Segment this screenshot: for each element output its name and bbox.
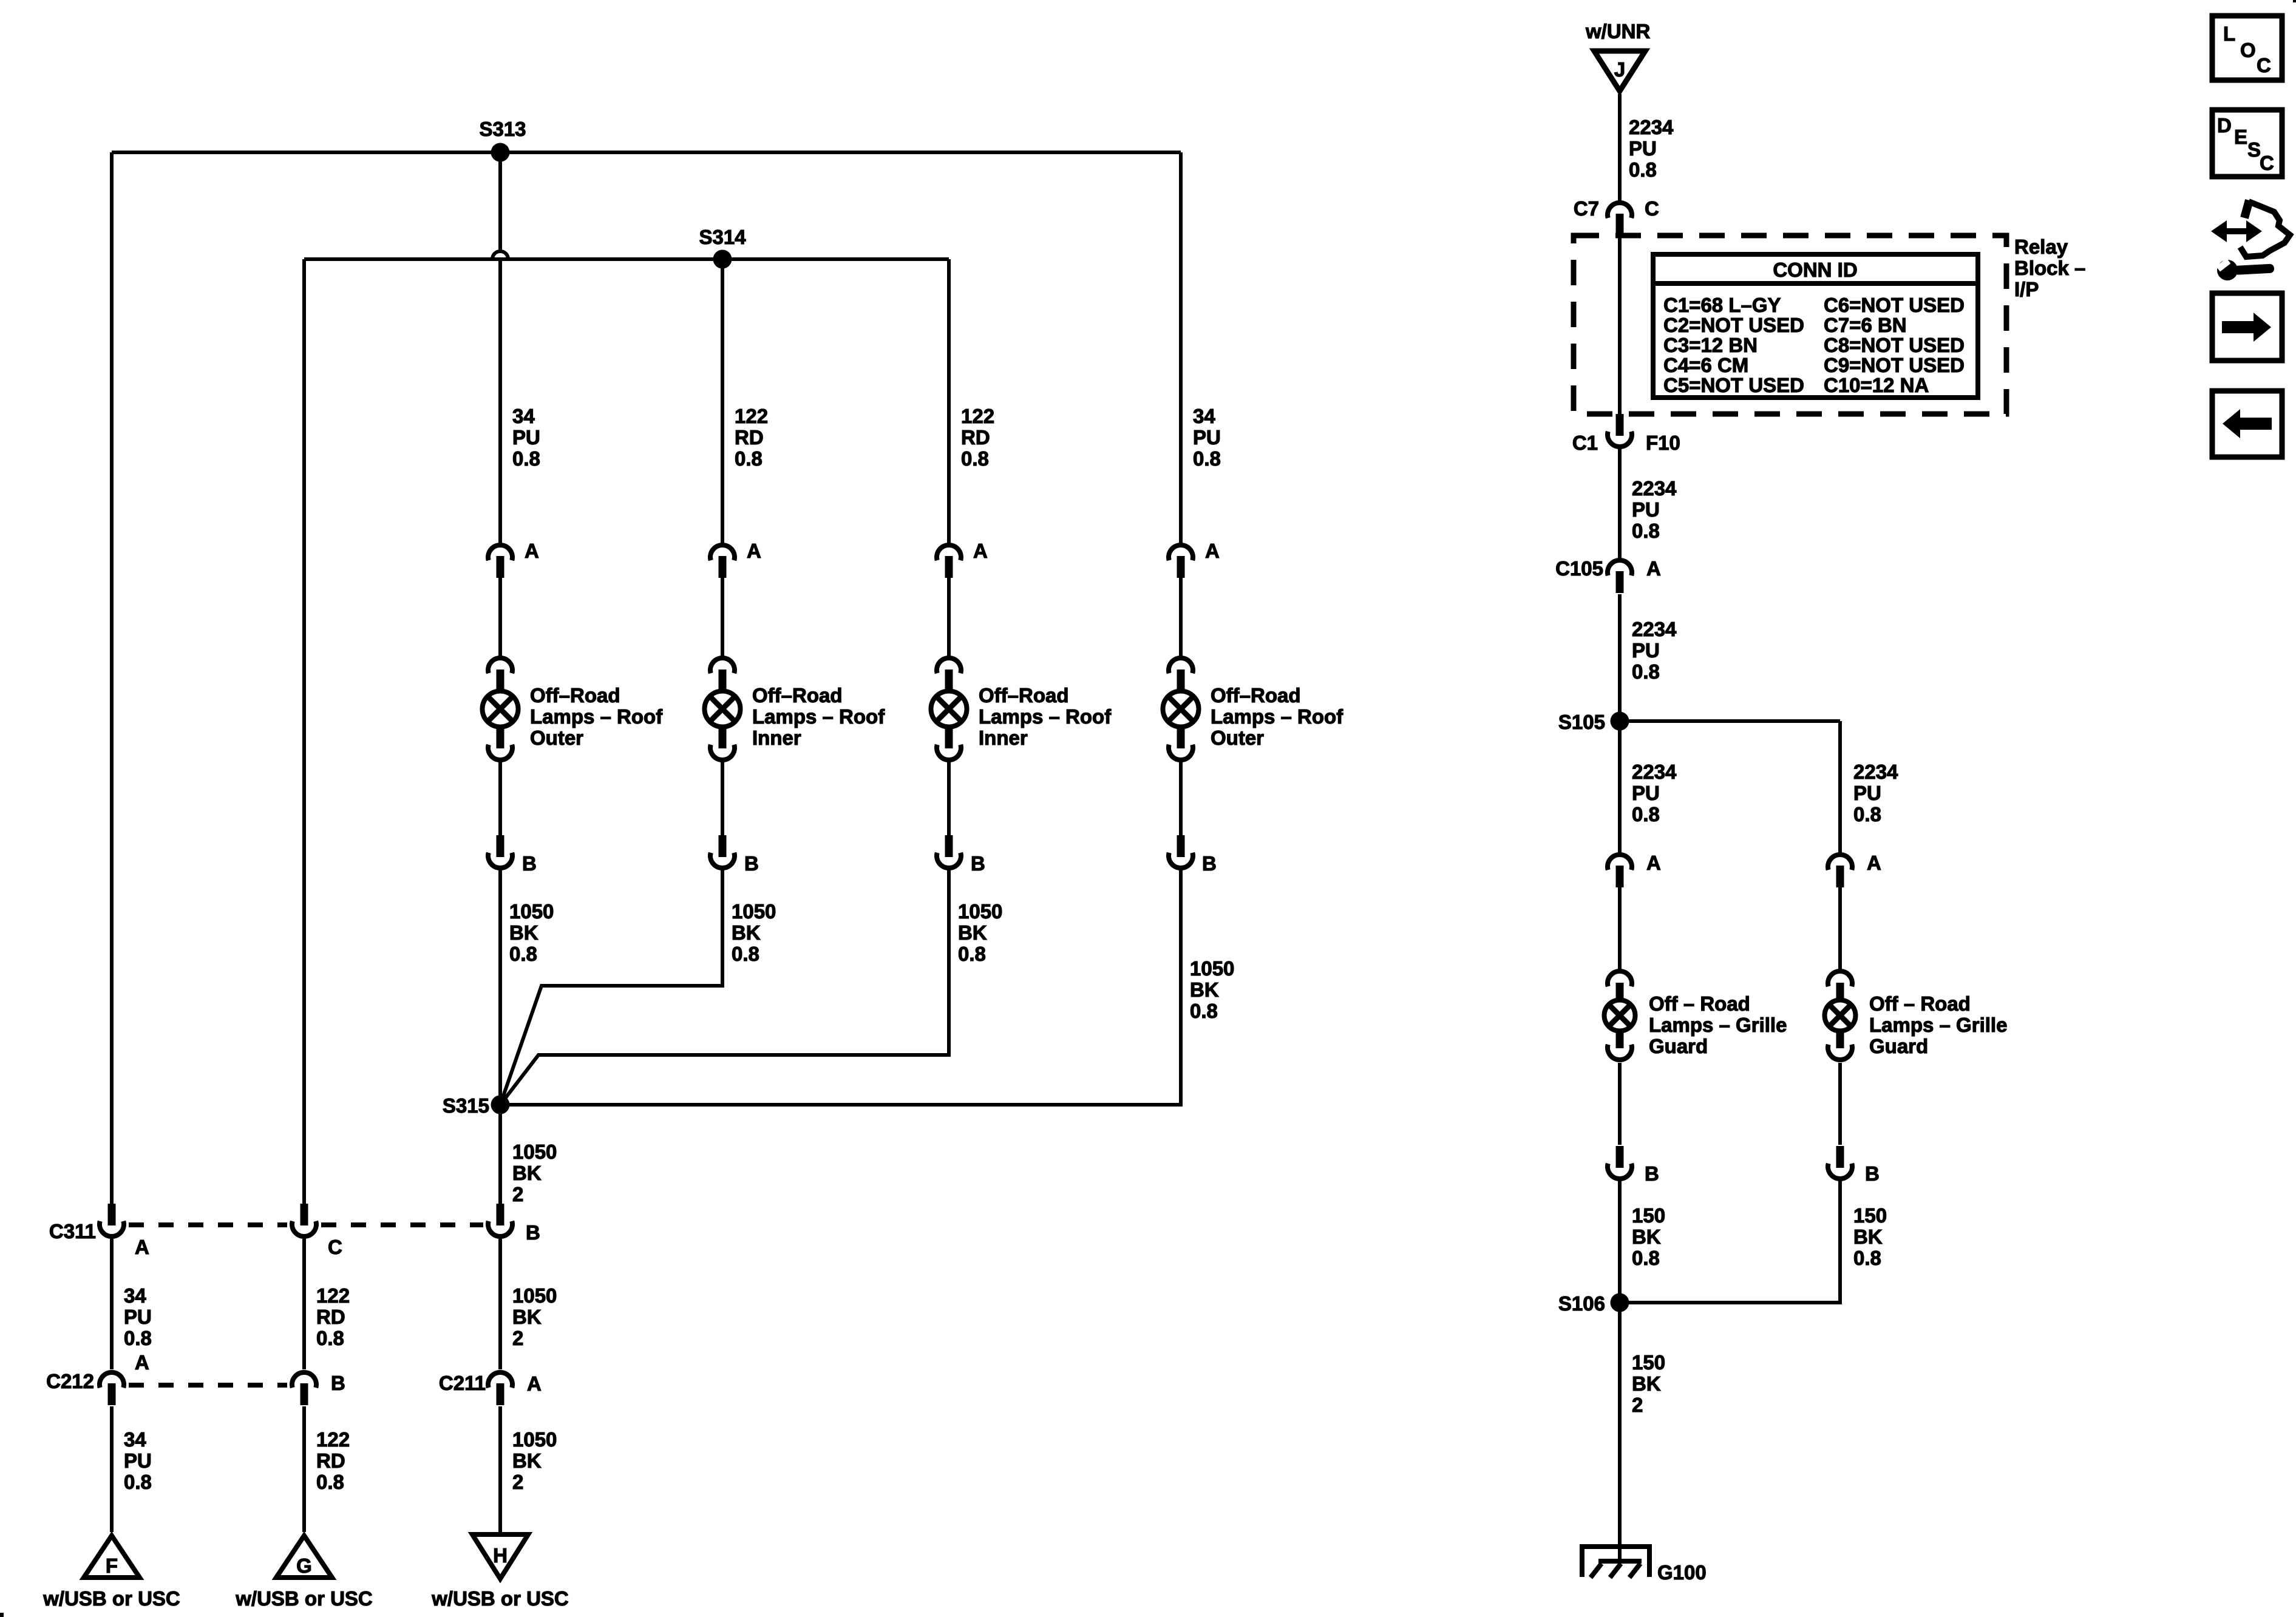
wire C1 to C105 (1618, 449, 1622, 560)
svg-text:150: 150 (1632, 1204, 1665, 1227)
svg-text:PU: PU (1632, 782, 1660, 804)
connector C7 pin C (1574, 197, 1659, 236)
wire B right to S106 (1620, 1181, 1840, 1303)
svg-text:RD: RD (316, 1306, 345, 1328)
svg-text:BK: BK (1853, 1225, 1883, 1248)
svg-text:Guard: Guard (1869, 1035, 1928, 1057)
label circuit 1050 BK 0.8 col3 (958, 900, 1002, 965)
svg-text:0.8: 0.8 (316, 1471, 344, 1493)
connector C211 cavity A (439, 1372, 542, 1405)
wire second branch down from S314 (302, 259, 306, 1204)
svg-text:150: 150 (1632, 1351, 1665, 1374)
svg-text:O: O (2240, 39, 2256, 61)
wire S314 bus horizontal (304, 257, 949, 261)
svg-text:122: 122 (735, 405, 768, 427)
wire lamp4 B return to S315 (500, 870, 1181, 1105)
svg-text:122: 122 (316, 1428, 350, 1451)
lamp Off-Road Lamps - Roof Inner #2 (931, 658, 1112, 760)
svg-text:PU: PU (124, 1449, 152, 1472)
svg-text:C9=NOT USED: C9=NOT USED (1824, 354, 1965, 376)
wire C311B to C211A (498, 1238, 502, 1369)
splice S106 (1558, 1292, 1629, 1315)
svg-text:D: D (2217, 114, 2232, 137)
svg-text:S106: S106 (1558, 1292, 1605, 1315)
label w/USB or USC under F (42, 1587, 180, 1610)
svg-text:0.8: 0.8 (961, 447, 989, 470)
svg-text:A: A (747, 540, 761, 562)
wire right grille feed (1838, 721, 1842, 854)
lamp Off-Road Lamps - Roof Outer #1 (483, 658, 664, 760)
svg-text:C4=6 CM: C4=6 CM (1663, 354, 1748, 376)
svg-text:PU: PU (1629, 137, 1657, 160)
svg-text:0.8: 0.8 (735, 447, 763, 470)
svg-text:Off–Road: Off–Road (530, 684, 620, 707)
svg-text:0.8: 0.8 (1632, 803, 1660, 825)
wire lamp2 A to lamp (721, 577, 724, 657)
label circuit 150 BK 0.8 right (1853, 1204, 1887, 1269)
wire lamp2 to B (721, 761, 724, 836)
connector C311 cavity C (292, 1204, 342, 1258)
label circuit 1050 BK 0.8 col1 (509, 900, 554, 965)
svg-text:PU: PU (512, 426, 540, 449)
connector C212 cavity A (46, 1351, 149, 1405)
svg-text:BK: BK (1190, 978, 1219, 1001)
svg-text:C212: C212 (46, 1370, 94, 1392)
svg-text:A: A (1205, 540, 1220, 562)
svg-text:w/UNR: w/UNR (1585, 20, 1651, 42)
svg-text:Off–Road: Off–Road (979, 684, 1069, 707)
svg-text:BK: BK (958, 921, 987, 944)
connector C311 cavity B (488, 1204, 540, 1244)
label circuit 122 RD 0.8 col2 (735, 405, 768, 470)
svg-text:A: A (135, 1236, 149, 1258)
svg-text:Block –: Block – (2014, 257, 2085, 279)
svg-text:PU: PU (1632, 498, 1660, 521)
svg-text:S313: S313 (479, 118, 526, 140)
svg-text:0.8: 0.8 (1853, 1247, 1881, 1269)
svg-text:C105: C105 (1555, 557, 1603, 580)
connector terminal B grille left (1608, 1146, 1659, 1185)
splice S313 (479, 118, 526, 162)
label circuit 2234 PU 0.8 second (1632, 477, 1677, 542)
svg-text:F: F (106, 1554, 118, 1577)
label circuit 2234 PU 0.8 left branch (1632, 761, 1677, 825)
svg-text:C8=NOT USED: C8=NOT USED (1824, 334, 1965, 356)
svg-text:B: B (744, 852, 759, 875)
svg-text:RD: RD (735, 426, 764, 449)
label circuit 150 BK 0.8 left (1632, 1204, 1665, 1269)
CONN ID right column (1824, 294, 1965, 396)
svg-text:A: A (527, 1372, 542, 1395)
wire A to grille lamp left (1618, 887, 1622, 971)
svg-text:w/USB or USC: w/USB or USC (431, 1587, 569, 1610)
svg-text:2: 2 (512, 1183, 523, 1205)
svg-text:1050: 1050 (1190, 957, 1234, 980)
svg-text:0.8: 0.8 (509, 943, 537, 965)
svg-text:1050: 1050 (732, 900, 776, 923)
svg-text:0.8: 0.8 (1632, 1247, 1660, 1269)
svg-text:BK: BK (512, 1162, 542, 1184)
svg-text:A: A (1646, 557, 1661, 580)
wire C105 to S105 (1618, 594, 1622, 721)
svg-text:34: 34 (124, 1428, 146, 1451)
label circuit 150 BK 2 (1632, 1351, 1665, 1416)
svg-text:C1=68 L–GY: C1=68 L–GY (1663, 294, 1781, 316)
wire lamp3 A to lamp (947, 577, 951, 657)
svg-text:150: 150 (1853, 1204, 1887, 1227)
svg-text:2234: 2234 (1632, 618, 1677, 640)
svg-text:G100: G100 (1657, 1561, 1707, 1584)
connector C105 pin A (1555, 557, 1661, 593)
svg-text:S: S (2247, 138, 2261, 161)
svg-text:0.8: 0.8 (1190, 1000, 1218, 1022)
wire lamp1 A to lamp (498, 577, 502, 657)
wire B left to S106 (1618, 1181, 1622, 1303)
label circuit 122 RD 0.8 col3 (961, 405, 994, 470)
svg-text:RD: RD (316, 1449, 345, 1472)
svg-text:C10=12 NA: C10=12 NA (1824, 374, 1929, 396)
connector terminal B lamp4 (1169, 835, 1217, 875)
label w/UNR (1585, 20, 1651, 42)
harness dashed link C311 A-C (129, 1222, 287, 1227)
wire C212B to G (302, 1406, 306, 1532)
wire lamp3 feed (947, 259, 951, 543)
svg-text:A: A (135, 1351, 149, 1374)
wire lamp3 to B (947, 761, 951, 836)
svg-text:L: L (2223, 22, 2235, 45)
harness dashed link C311 C-B (321, 1222, 483, 1227)
svg-text:C311: C311 (49, 1220, 96, 1242)
svg-text:w/USB or USC: w/USB or USC (42, 1587, 180, 1610)
svg-text:B: B (522, 852, 537, 875)
svg-text:A: A (1867, 852, 1881, 874)
svg-text:A: A (525, 540, 539, 562)
svg-text:B: B (331, 1372, 345, 1394)
svg-text:C2=NOT USED: C2=NOT USED (1663, 314, 1804, 336)
svg-text:C7: C7 (1574, 197, 1599, 220)
label circuit 34 PU 0.8 col4 (1193, 405, 1221, 470)
wire lamp1 feed lower (498, 259, 502, 543)
wire lamp2 feed (721, 259, 724, 543)
svg-text:PU: PU (1193, 426, 1221, 449)
label circuit 122 RD 0.8 mid (316, 1284, 350, 1349)
svg-text:0.8: 0.8 (732, 943, 759, 965)
harness dashed link C212 A-B (129, 1383, 287, 1388)
svg-text:A: A (1646, 852, 1661, 874)
svg-text:C: C (1645, 197, 1659, 220)
wire through relay block (1618, 237, 1622, 414)
svg-text:1050: 1050 (512, 1284, 557, 1307)
svg-text:0.8: 0.8 (958, 943, 986, 965)
page corner mark bottom-left (0, 1613, 4, 1617)
lamp Off-Road Lamps - Roof Inner #1 (705, 658, 886, 760)
connector terminal A lamp3 (937, 540, 988, 578)
CONN ID table title (1773, 259, 1857, 281)
CONN ID table frame (1653, 254, 1978, 398)
off-page triangle J (1594, 51, 1645, 91)
svg-text:34: 34 (512, 405, 535, 427)
svg-text:E: E (2234, 126, 2247, 148)
svg-text:BK: BK (1632, 1372, 1661, 1395)
label circuit 34 PU 0.8 mid-left (124, 1284, 152, 1349)
svg-text:2: 2 (1632, 1394, 1643, 1416)
svg-text:1050: 1050 (509, 900, 554, 923)
svg-text:RD: RD (961, 426, 990, 449)
svg-text:S315: S315 (443, 1094, 489, 1117)
label Relay Block - I/P (2014, 236, 2085, 300)
wire hop over S314 bus (492, 251, 508, 259)
splice S105 (1558, 711, 1629, 733)
svg-text:2: 2 (512, 1327, 523, 1349)
off-page triangle G (276, 1536, 332, 1578)
svg-text:Lamps – Roof: Lamps – Roof (979, 705, 1112, 728)
svg-text:BK: BK (512, 1449, 542, 1472)
svg-text:J: J (1614, 58, 1625, 81)
label circuit 1050 BK 0.8 col4 (1190, 957, 1234, 1022)
svg-text:Off – Road: Off – Road (1869, 992, 1971, 1015)
label circuit 122 RD 0.8 bottom (316, 1428, 350, 1493)
svg-text:0.8: 0.8 (124, 1327, 152, 1349)
wire C211A to H (498, 1406, 502, 1532)
svg-text:C7=6 BN: C7=6 BN (1824, 314, 1907, 336)
svg-text:0.8: 0.8 (316, 1327, 344, 1349)
wire S315 to C311-B (498, 1105, 502, 1204)
svg-text:BK: BK (512, 1306, 542, 1328)
svg-text:Inner: Inner (752, 727, 801, 749)
relay block dashed outline (1574, 236, 2006, 414)
svg-text:Outer: Outer (1211, 727, 1264, 749)
splice S315 (443, 1094, 510, 1117)
svg-text:B: B (971, 852, 985, 875)
label circuit 1050 BK 0.8 col2 (732, 900, 776, 965)
svg-text:Off–Road: Off–Road (752, 684, 843, 707)
connector terminal A lamp4 (1169, 540, 1220, 578)
splice S314 (699, 226, 746, 269)
wire C212A to F (110, 1406, 114, 1532)
lamp Off-Road Lamps - Roof Outer #2 (1163, 658, 1344, 760)
CONN ID left column (1663, 294, 1804, 396)
wire grille lamp to B right (1838, 1063, 1842, 1145)
svg-text:BK: BK (732, 921, 761, 944)
svg-text:C: C (328, 1236, 342, 1258)
wire lamp4 to B (1179, 761, 1183, 836)
svg-text:C211: C211 (439, 1372, 486, 1394)
svg-text:Off – Road: Off – Road (1649, 992, 1750, 1015)
svg-text:2234: 2234 (1629, 116, 1674, 138)
svg-text:Inner: Inner (979, 727, 1028, 749)
connector terminal B lamp1 (488, 835, 537, 875)
icon vehicle double-arrow (2211, 220, 2262, 242)
wire lamp4 feed (1179, 152, 1183, 543)
off-page triangle F (84, 1536, 140, 1578)
icon LOC box (2212, 16, 2282, 80)
svg-text:2234: 2234 (1853, 761, 1898, 783)
svg-text:PU: PU (1632, 639, 1660, 662)
svg-text:CONN ID: CONN ID (1773, 259, 1857, 281)
connector terminal B grille right (1828, 1146, 1880, 1185)
wire left grille feed (1618, 721, 1622, 854)
svg-text:C5=NOT USED: C5=NOT USED (1663, 374, 1804, 396)
svg-text:BK: BK (1632, 1225, 1661, 1248)
connector C311 cavity A (49, 1204, 149, 1258)
svg-text:G: G (296, 1554, 312, 1577)
svg-text:0.8: 0.8 (1853, 803, 1881, 825)
wire S105 branch bus (1620, 719, 1840, 723)
connector terminal A grille left (1608, 852, 1661, 887)
svg-text:34: 34 (124, 1284, 146, 1307)
svg-text:H: H (493, 1544, 508, 1567)
svg-text:C3=12 BN: C3=12 BN (1663, 334, 1758, 356)
lamp Off-Road Lamps - Grille Guard right (1825, 971, 2008, 1060)
svg-text:S105: S105 (1558, 711, 1605, 733)
ground G100 (1582, 1547, 1707, 1584)
svg-text:B: B (1202, 852, 1217, 875)
off-page triangle H (472, 1534, 528, 1579)
label circuit 2234 PU 0.8 right branch (1853, 761, 1898, 825)
svg-text:Lamps – Roof: Lamps – Roof (1211, 705, 1343, 728)
wire lamp1 feed upper (498, 152, 502, 251)
wire grille lamp to B left (1618, 1063, 1622, 1145)
icon DESC box (2212, 110, 2282, 177)
svg-text:2234: 2234 (1632, 761, 1677, 783)
wire S106 to ground (1618, 1303, 1622, 1563)
svg-text:0.8: 0.8 (1193, 447, 1221, 470)
label w/USB or USC under H (431, 1587, 569, 1610)
label w/USB or USC under G (235, 1587, 373, 1610)
svg-text:BK: BK (509, 921, 538, 944)
connector terminal A grille right (1828, 852, 1881, 887)
svg-text:I/P: I/P (2014, 278, 2039, 300)
connector C1 pin F10 (1572, 414, 1680, 454)
wire lamp2 B return to S315 (500, 870, 722, 1105)
svg-text:B: B (1645, 1162, 1659, 1185)
label circuit 2234 PU 0.8 top (1629, 116, 1674, 181)
svg-text:0.8: 0.8 (1632, 660, 1660, 683)
svg-text:0.8: 0.8 (1632, 520, 1660, 542)
connector terminal A lamp1 (488, 540, 539, 578)
wire lamp1 B to S315 (498, 870, 502, 1105)
lamp Off-Road Lamps - Grille Guard left (1605, 971, 1787, 1060)
svg-text:1050: 1050 (512, 1141, 557, 1163)
label circuit 1050 BK 2 mid (512, 1284, 557, 1349)
icon vehicle outline (2240, 200, 2290, 257)
icon wrench (2216, 258, 2274, 280)
wire A to grille lamp right (1838, 887, 1842, 971)
svg-text:PU: PU (1853, 782, 1881, 804)
svg-text:0.8: 0.8 (1629, 158, 1657, 181)
wire S313 bus horizontal (112, 151, 1181, 154)
label circuit 34 PU 0.8 bottom (124, 1428, 152, 1493)
svg-text:w/USB or USC: w/USB or USC (235, 1587, 373, 1610)
svg-text:B: B (526, 1221, 540, 1244)
svg-text:0.8: 0.8 (512, 447, 540, 470)
svg-text:Lamps – Roof: Lamps – Roof (752, 705, 885, 728)
wire J to C7 (1618, 94, 1622, 202)
svg-text:C: C (2257, 54, 2271, 76)
wire C311A to C212A (110, 1238, 114, 1369)
svg-text:Lamps – Roof: Lamps – Roof (530, 705, 663, 728)
wire left branch down from S313 (110, 152, 114, 1204)
svg-text:C: C (2260, 152, 2274, 174)
svg-text:1050: 1050 (512, 1428, 557, 1451)
svg-text:0.8: 0.8 (124, 1471, 152, 1493)
svg-text:A: A (973, 540, 988, 562)
wire lamp3 B return to S315 (500, 870, 949, 1105)
svg-text:C6=NOT USED: C6=NOT USED (1824, 294, 1965, 316)
icon forward arrow box (2212, 293, 2282, 361)
svg-text:B: B (1865, 1162, 1880, 1185)
icon back arrow box (2212, 391, 2282, 457)
label circuit 1050 BK 2 below S315 (512, 1141, 557, 1205)
wire C311C to C212B (302, 1238, 306, 1369)
svg-text:PU: PU (124, 1306, 152, 1328)
svg-text:Outer: Outer (530, 727, 583, 749)
svg-text:2: 2 (512, 1471, 523, 1493)
connector C212 cavity B (292, 1372, 345, 1405)
svg-text:34: 34 (1193, 405, 1215, 427)
connector terminal A lamp2 (710, 540, 761, 578)
connector terminal B lamp3 (937, 835, 985, 875)
svg-text:C1: C1 (1572, 432, 1598, 454)
label circuit 1050 BK 2 bottom (512, 1428, 557, 1493)
svg-text:Off–Road: Off–Road (1211, 684, 1301, 707)
svg-text:F10: F10 (1646, 432, 1680, 454)
connector terminal B lamp2 (710, 835, 759, 875)
svg-text:122: 122 (961, 405, 994, 427)
svg-text:Relay: Relay (2014, 236, 2068, 258)
svg-text:1050: 1050 (958, 900, 1002, 923)
svg-text:2234: 2234 (1632, 477, 1677, 500)
svg-text:Lamps – Grille: Lamps – Grille (1649, 1014, 1787, 1036)
svg-text:Guard: Guard (1649, 1035, 1708, 1057)
wire lamp4 A to lamp (1179, 577, 1183, 657)
label circuit 2234 PU 0.8 third (1632, 618, 1677, 683)
label circuit 34 PU 0.8 col1 (512, 405, 540, 470)
page corner mark top-right (2293, 0, 2296, 2)
wire lamp1 to B (498, 761, 502, 836)
svg-text:S314: S314 (699, 226, 746, 248)
svg-text:122: 122 (316, 1284, 350, 1307)
svg-text:Lamps – Grille: Lamps – Grille (1869, 1014, 2007, 1036)
